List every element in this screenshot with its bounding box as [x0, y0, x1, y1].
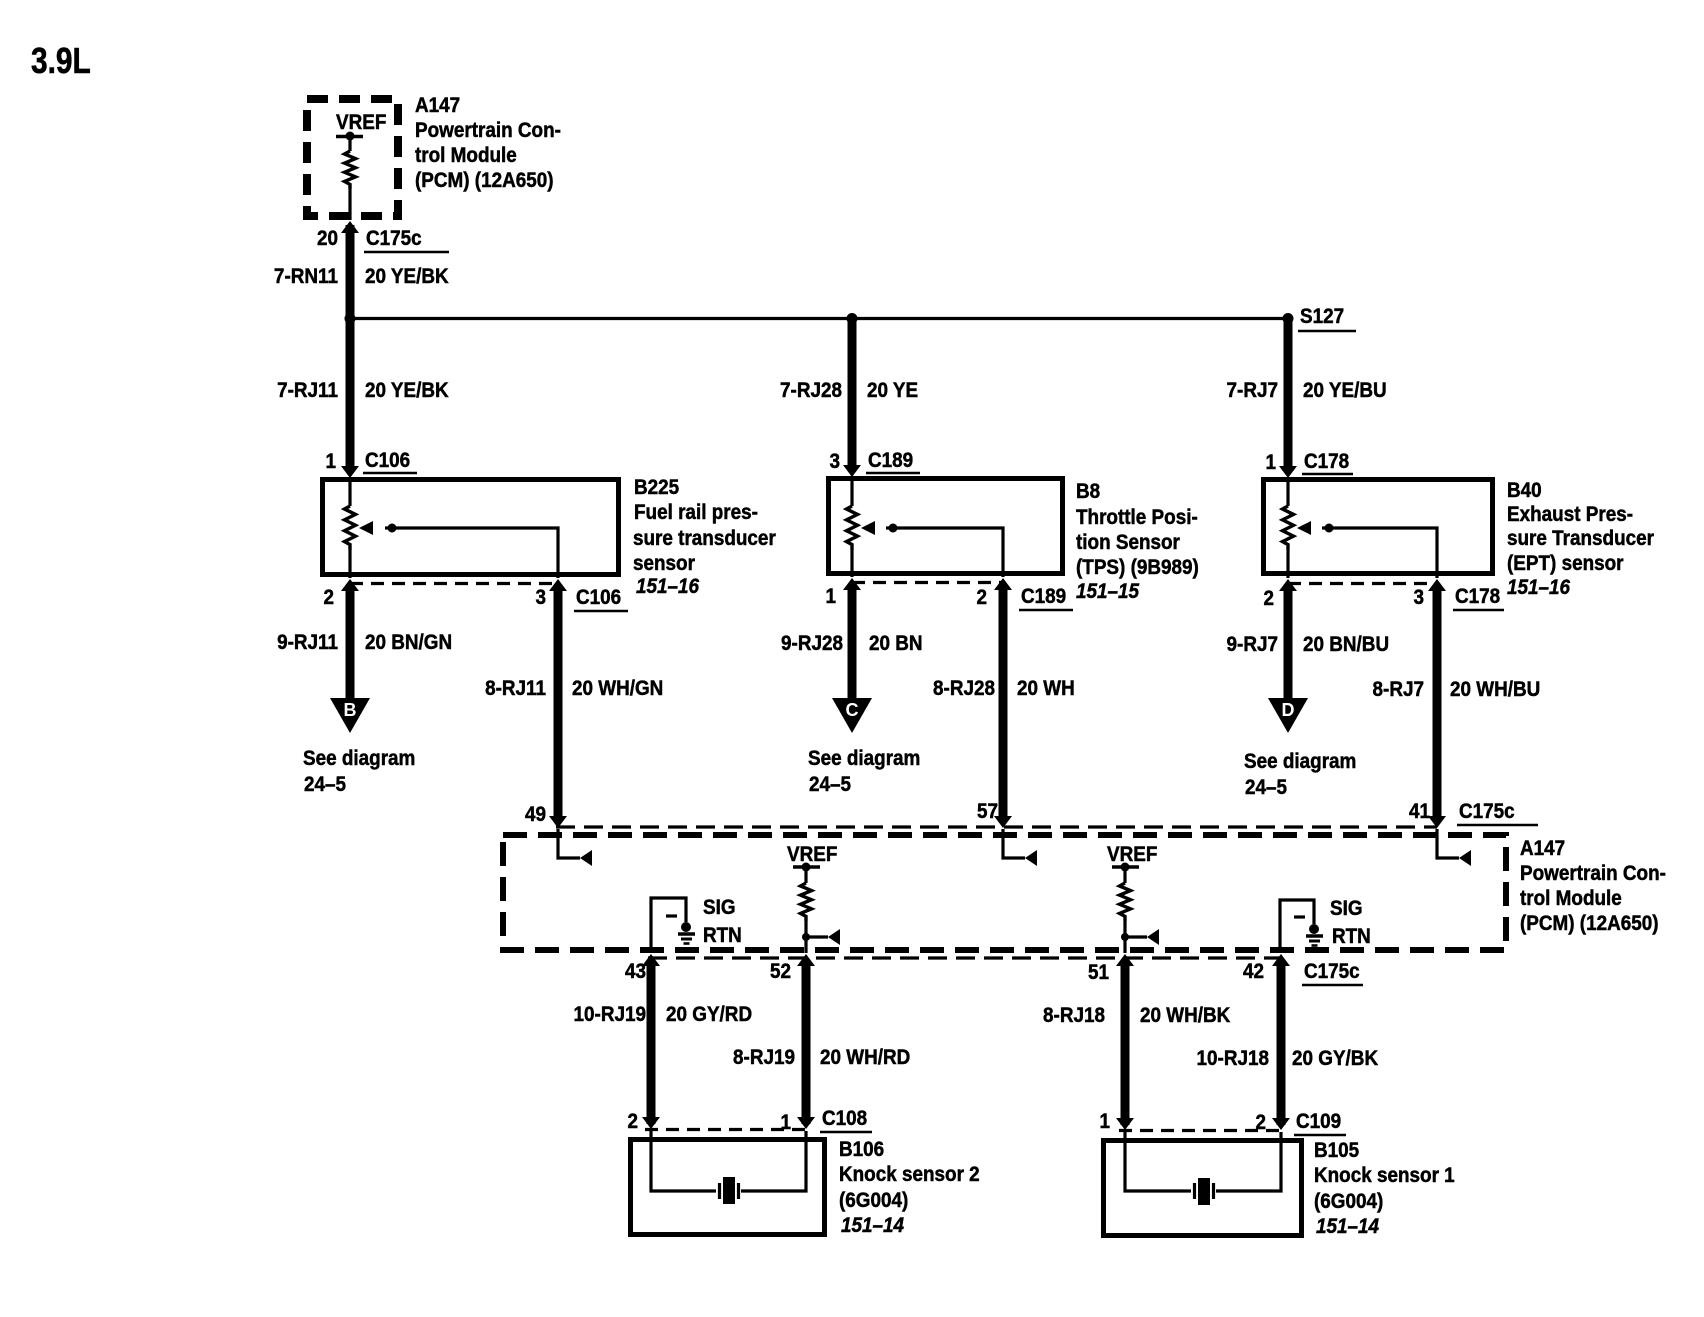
wire resistor to pin 20 — [348, 189, 351, 220]
svg-text:7-RJ28: 7-RJ28 — [780, 379, 842, 402]
pin 2 arrow out of C189 — [994, 578, 1012, 590]
pin 52 arrow out of C175c — [797, 954, 815, 966]
svg-text:24–5: 24–5 — [1245, 776, 1287, 799]
connector C175c label (PCM top) — [1457, 800, 1538, 825]
B8 wiper wire to pin 2 — [886, 528, 1003, 577]
pin 2 arrow into C108 — [642, 1117, 660, 1129]
svg-text:42: 42 — [1243, 960, 1264, 983]
svg-text:9-RJ7: 9-RJ7 — [1227, 633, 1278, 656]
svg-text:9-RJ28: 9-RJ28 — [781, 632, 843, 655]
svg-text:3: 3 — [829, 450, 840, 473]
svg-text:B: B — [344, 700, 357, 720]
pin 1 arrow into C109 — [1116, 1118, 1134, 1130]
svg-text:20 BN/GN: 20 BN/GN — [365, 631, 452, 654]
sensor B8 throttle position sensor box — [829, 479, 1063, 574]
svg-text:151–14: 151–14 — [841, 1214, 904, 1237]
wire 9-RJ11 20 BN/GN — [346, 587, 355, 698]
label 10-RJ18 — [1197, 1047, 1269, 1070]
wire 8-RJ18 20 WH/BK — [1121, 960, 1130, 1125]
svg-text:24–5: 24–5 — [304, 773, 346, 796]
svg-text:10-RJ19: 10-RJ19 — [574, 1003, 646, 1026]
wire 8-RJ7 20 WH/BU — [1433, 587, 1442, 820]
label A147 PCM (top) — [415, 94, 561, 192]
pin number 2 (C189) — [976, 586, 987, 609]
PCM internal stub pin 49 — [558, 829, 580, 858]
sensor B106 knock sensor 2 box — [631, 1140, 825, 1235]
svg-text:2: 2 — [1263, 587, 1274, 610]
svg-text:151–16: 151–16 — [636, 575, 700, 598]
svg-text:3: 3 — [1413, 586, 1424, 609]
connector C175c label (top) — [364, 227, 449, 252]
svg-text:151–14: 151–14 — [1316, 1215, 1379, 1238]
connector C109 label — [1294, 1110, 1346, 1135]
pin 2 arrow out of C178 — [1279, 579, 1297, 591]
svg-text:RTN: RTN — [703, 924, 742, 947]
label B8 text block — [1076, 480, 1199, 603]
svg-text:(6G004): (6G004) — [1314, 1190, 1383, 1213]
svg-text:2: 2 — [976, 586, 987, 609]
PCM internal arrow pin 49 — [580, 850, 592, 866]
pin 3 arrow out of C178 — [1428, 579, 1446, 591]
svg-text:Powertrain Con-: Powertrain Con- — [415, 119, 561, 142]
PCM internal arrow VREF right — [1147, 929, 1159, 945]
pin number 42 — [1243, 960, 1264, 983]
svg-text:SIG: SIG — [1330, 897, 1363, 920]
wire bus to splice S127 — [350, 317, 1288, 320]
svg-text:C189: C189 — [1021, 585, 1066, 608]
label S127 — [1298, 305, 1356, 331]
svg-text:D: D — [1282, 700, 1295, 720]
junction dot VREF right — [1121, 933, 1129, 941]
B225 wiper arrow — [359, 521, 373, 535]
label 20 YE/BK (RN11) — [365, 265, 449, 288]
svg-text:C106: C106 — [365, 449, 410, 472]
pin 42 arrow out of C175c — [1272, 954, 1290, 966]
off-page arrow C — [832, 698, 872, 733]
SIG RTN minus mark (left) — [666, 914, 677, 917]
svg-text:sure transducer: sure transducer — [633, 527, 776, 550]
B40 wiper junction dot — [1325, 524, 1334, 533]
pin number 2 (C106) — [323, 586, 334, 609]
B40 wiper wire to pin 3 — [1322, 528, 1437, 578]
svg-text:49: 49 — [525, 803, 546, 826]
svg-text:43: 43 — [625, 960, 646, 983]
B105 internal wire right — [1216, 1132, 1281, 1191]
PCM internal stub pin 41 — [1437, 829, 1459, 858]
svg-text:8-RJ19: 8-RJ19 — [733, 1046, 795, 1069]
B105 internal wire left — [1125, 1132, 1191, 1191]
off-page arrow D — [1268, 698, 1308, 733]
PCM internal stub VREF right — [1125, 935, 1147, 938]
svg-text:57: 57 — [977, 800, 998, 823]
B40 internal wire pin1 to resistor — [1286, 477, 1289, 506]
label 20 BN/BU — [1303, 633, 1389, 656]
svg-text:1: 1 — [780, 1111, 791, 1134]
pin 43 arrow out of C175c — [642, 954, 660, 966]
resistor VREF left inside PCM — [801, 883, 812, 921]
node VREF terminal bar (PCM right) — [1112, 863, 1139, 872]
connector C175c label (PCM bottom) — [1302, 960, 1363, 985]
svg-text:C175c: C175c — [1459, 800, 1515, 823]
svg-text:10-RJ18: 10-RJ18 — [1197, 1047, 1269, 1070]
pin number 57 — [977, 800, 998, 823]
svg-text:7-RJ11: 7-RJ11 — [277, 379, 338, 402]
svg-text:(TPS) (9B989): (TPS) (9B989) — [1076, 556, 1199, 579]
label 20 GY/BK — [1292, 1047, 1379, 1070]
label 20 BN/GN — [365, 631, 452, 654]
label 20 YE/BK (RJ11) — [365, 379, 449, 402]
connector C106 label (top) — [363, 449, 417, 473]
svg-text:20 GY/RD: 20 GY/RD — [666, 1003, 752, 1026]
note see diagram 24-5 (C) — [808, 747, 920, 796]
label 9-RJ7 — [1227, 633, 1278, 656]
wire 10-RJ18 20 GY/BK — [1277, 960, 1286, 1125]
svg-text:7-RN11: 7-RN11 — [274, 265, 338, 288]
resistor inside top PCM — [345, 151, 356, 189]
junction dot VREF left — [802, 933, 810, 941]
pin number 3 (C106) — [535, 586, 546, 609]
B105 piezo element — [1195, 1178, 1214, 1205]
connector C189 label (bottom) — [1019, 585, 1073, 610]
svg-text:trol Module: trol Module — [415, 144, 517, 167]
label 20 WH/BK — [1140, 1004, 1231, 1027]
label 20 WH — [1017, 677, 1075, 700]
B8 wiper arrow — [861, 521, 875, 535]
svg-text:SIG: SIG — [703, 896, 736, 919]
connector C189 label (top) — [866, 449, 920, 473]
B8 resistor to pin 1 wire — [850, 550, 853, 577]
SIG RTN hook wire (left) — [651, 898, 686, 952]
pin 41 arrow into C175c — [1428, 816, 1446, 828]
SIG RTN hook wire (right) — [1280, 900, 1314, 952]
pin number 51 — [1088, 961, 1109, 984]
svg-text:41: 41 — [1409, 800, 1430, 823]
junction dot middle branch — [847, 313, 858, 324]
wire resistor to pin 51 — [1123, 921, 1126, 953]
B106 internal wire right — [741, 1131, 806, 1191]
connector C175c dashed line (PCM top row) — [556, 825, 1437, 828]
B40 potentiometer resistor — [1283, 506, 1294, 550]
pin 1 arrow into C106 — [341, 466, 359, 478]
svg-text:B105: B105 — [1314, 1139, 1359, 1162]
svg-text:20 BN: 20 BN — [869, 632, 923, 655]
pin number 2 (C108) — [627, 1110, 638, 1133]
label 20 WH/GN — [572, 677, 663, 700]
wire 7-RJ28 20 YE (middle drop) — [848, 318, 857, 466]
pin number 1 (C178) — [1265, 451, 1276, 474]
svg-text:C175c: C175c — [1304, 960, 1360, 983]
PCM internal arrow VREF left — [828, 929, 840, 945]
wire VREF to resistor (PCM left) — [804, 869, 807, 883]
connector C106 label (bottom) — [574, 586, 628, 611]
svg-text:B106: B106 — [839, 1138, 884, 1161]
svg-text:sensor: sensor — [633, 552, 695, 575]
resistor VREF right inside PCM — [1120, 883, 1131, 921]
net VREF label (PCM left) — [787, 843, 837, 866]
svg-text:1: 1 — [1265, 451, 1276, 474]
label B40 text block — [1507, 479, 1654, 599]
wire resistor to pin 52 — [804, 921, 807, 953]
svg-text:Exhaust Pres-: Exhaust Pres- — [1507, 503, 1633, 526]
pin number 1 (C189) — [825, 585, 836, 608]
svg-text:20 YE/BU: 20 YE/BU — [1303, 379, 1387, 402]
svg-text:20 WH/GN: 20 WH/GN — [572, 677, 663, 700]
svg-text:20 WH/RD: 20 WH/RD — [820, 1046, 910, 1069]
net VREF label (PCM right) — [1107, 843, 1157, 866]
svg-text:C175c: C175c — [366, 227, 422, 250]
svg-text:sure Transducer: sure Transducer — [1507, 527, 1654, 550]
sensor B40 exhaust pressure transducer box — [1264, 480, 1493, 574]
splice S127 junction dot — [1283, 313, 1294, 324]
svg-text:S127: S127 — [1300, 305, 1344, 328]
svg-text:24–5: 24–5 — [809, 773, 851, 796]
PCM internal arrow pin 57 — [1025, 850, 1037, 866]
svg-text:RTN: RTN — [1332, 925, 1371, 948]
B40 wiper arrow — [1297, 521, 1311, 535]
svg-text:3.9L: 3.9L — [31, 41, 91, 81]
label 9-RJ11 — [277, 631, 338, 654]
label A147 PCM (bottom) — [1520, 837, 1666, 935]
note see diagram 24-5 (B) — [303, 747, 415, 796]
B225 internal wire pin1 to resistor — [348, 477, 351, 506]
pin 3 arrow out of C106 — [549, 579, 567, 591]
label 7-RN11 — [274, 265, 338, 288]
connector C178 label (bottom) — [1453, 585, 1504, 610]
svg-text:7-RJ7: 7-RJ7 — [1227, 379, 1278, 402]
label 20 BN — [869, 632, 923, 655]
svg-text:1: 1 — [825, 585, 836, 608]
svg-text:(PCM) (12A650): (PCM) (12A650) — [415, 169, 554, 192]
connector C108 label — [820, 1107, 872, 1132]
pin 20 arrow into connector C175c — [341, 221, 359, 233]
B106 piezo element — [720, 1177, 739, 1204]
svg-text:A147: A147 — [1520, 837, 1565, 860]
title 3.9L — [31, 41, 91, 81]
svg-text:Throttle Posi-: Throttle Posi- — [1076, 506, 1198, 529]
svg-text:trol Module: trol Module — [1520, 887, 1622, 910]
svg-text:9-RJ11: 9-RJ11 — [277, 631, 338, 654]
label SIG (right) — [1330, 897, 1363, 920]
svg-text:2: 2 — [627, 1110, 638, 1133]
svg-text:(6G004): (6G004) — [839, 1189, 908, 1212]
svg-text:20 WH: 20 WH — [1017, 677, 1075, 700]
wire 7-RN11 20 YE/BK thick segment — [346, 225, 355, 466]
B40 resistor to pin 2 wire — [1286, 550, 1289, 578]
svg-text:VREF: VREF — [787, 843, 837, 866]
pin number 20 — [317, 227, 338, 250]
svg-text:See diagram: See diagram — [303, 747, 415, 770]
svg-text:8-RJ7: 8-RJ7 — [1373, 678, 1424, 701]
pin number 2 (C178) — [1263, 587, 1274, 610]
B225 resistor to pin 2 wire — [348, 550, 351, 578]
label RTN (left) — [703, 924, 742, 947]
svg-text:See diagram: See diagram — [808, 747, 920, 770]
label 8-RJ7 — [1373, 678, 1424, 701]
svg-text:3: 3 — [535, 586, 546, 609]
svg-text:Powertrain Con-: Powertrain Con- — [1520, 862, 1666, 885]
module A147 PCM (bottom) dashed box — [503, 835, 1506, 950]
svg-text:C: C — [846, 700, 859, 720]
label 20 YE/BU — [1303, 379, 1387, 402]
pin number 43 — [625, 960, 646, 983]
svg-text:Knock sensor 2: Knock sensor 2 — [839, 1163, 980, 1186]
wire 8-RJ28 20 WH — [999, 586, 1008, 820]
svg-text:C109: C109 — [1296, 1110, 1341, 1133]
B106 internal wire left — [651, 1131, 716, 1191]
svg-text:8-RJ28: 8-RJ28 — [933, 677, 995, 700]
label 8-RJ28 — [933, 677, 995, 700]
connector C178 dashed line (bottom of B40) — [1288, 582, 1437, 585]
pin number 1 (C109) — [1099, 1110, 1110, 1133]
pin 1 arrow into C108 — [797, 1117, 815, 1129]
pin 2 arrow out of C106 — [341, 579, 359, 591]
label 7-RJ11 — [277, 379, 338, 402]
svg-text:52: 52 — [770, 960, 791, 983]
pin 1 arrow into C178 — [1279, 466, 1297, 478]
pin number 1 (C108) — [780, 1111, 791, 1134]
pin number 49 — [525, 803, 546, 826]
junction dot at splice below pin 20 — [345, 313, 356, 324]
sensor B225 fuel rail pressure transducer box — [323, 480, 619, 575]
wire 9-RJ28 20 BN — [848, 586, 857, 698]
wire VREF to resistor (PCM right) — [1123, 869, 1126, 883]
label 20 WH/BU — [1450, 678, 1540, 701]
B8 potentiometer resistor — [847, 506, 858, 550]
svg-text:B8: B8 — [1076, 480, 1100, 503]
pin 49 arrow into C175c — [549, 816, 567, 828]
svg-text:C106: C106 — [576, 586, 621, 609]
connector C109 dashed line — [1119, 1129, 1285, 1132]
svg-text:C108: C108 — [822, 1107, 867, 1130]
svg-text:2: 2 — [323, 586, 334, 609]
wire 9-RJ7 20 BN/BU — [1284, 587, 1293, 698]
pin 51 arrow out of C175c — [1116, 954, 1134, 966]
ground symbol SIG RTN (left) — [678, 922, 695, 944]
connector C175c dashed line (PCM bottom row) — [648, 956, 1285, 959]
connector C108 dashed line — [645, 1128, 810, 1131]
svg-text:8-RJ18: 8-RJ18 — [1043, 1004, 1105, 1027]
note see diagram 24-5 (D) — [1244, 750, 1356, 799]
svg-text:1: 1 — [325, 450, 336, 473]
wire VREF to resistor (top PCM) — [348, 138, 351, 151]
connector C189 dashed line (bottom of B8) — [852, 581, 1003, 584]
svg-text:B225: B225 — [634, 476, 679, 499]
wire 8-RJ11 20 WH/GN — [554, 587, 563, 820]
svg-text:8-RJ11: 8-RJ11 — [485, 677, 546, 700]
net VREF label (top PCM) — [336, 111, 386, 134]
label 9-RJ28 — [781, 632, 843, 655]
B225 wiper junction dot — [388, 524, 397, 533]
label B225 text block — [633, 476, 776, 598]
svg-text:(PCM) (12A650): (PCM) (12A650) — [1520, 912, 1659, 935]
B225 wiper wire to pin 3 — [385, 528, 558, 578]
label B106 text block — [839, 1138, 980, 1237]
label RTN (right) — [1332, 925, 1371, 948]
svg-text:(EPT) sensor: (EPT) sensor — [1507, 552, 1624, 575]
label 20 WH/RD — [820, 1046, 910, 1069]
connector C106 dashed line (bottom of B225) — [350, 582, 558, 585]
svg-text:151–16: 151–16 — [1507, 576, 1571, 599]
svg-text:20 BN/BU: 20 BN/BU — [1303, 633, 1389, 656]
label 20 YE — [867, 379, 918, 402]
pin number 3 (C189) — [829, 450, 840, 473]
node VREF terminal bar (PCM left) — [793, 863, 820, 872]
SIG RTN minus mark (right) — [1294, 915, 1305, 918]
label 8-RJ11 — [485, 677, 546, 700]
label 7-RJ7 — [1227, 379, 1278, 402]
label SIG (left) — [703, 896, 736, 919]
off-page arrow B — [330, 698, 370, 733]
svg-text:1: 1 — [1099, 1110, 1110, 1133]
svg-text:20: 20 — [317, 227, 338, 250]
svg-text:C178: C178 — [1455, 585, 1500, 608]
svg-text:51: 51 — [1088, 961, 1109, 984]
svg-text:C189: C189 — [868, 449, 913, 472]
wire 10-RJ19 20 GY/RD — [647, 960, 656, 1124]
pin 57 arrow into C175c — [994, 816, 1012, 828]
PCM internal stub pin 57 — [1003, 829, 1025, 858]
svg-text:20 YE/BK: 20 YE/BK — [365, 379, 449, 402]
svg-text:VREF: VREF — [1107, 843, 1157, 866]
svg-text:20 WH/BK: 20 WH/BK — [1140, 1004, 1231, 1027]
svg-text:151–15: 151–15 — [1076, 580, 1140, 603]
svg-text:2: 2 — [1255, 1111, 1266, 1134]
PCM internal arrow pin 41 — [1459, 850, 1471, 866]
svg-text:See diagram: See diagram — [1244, 750, 1356, 773]
svg-text:C178: C178 — [1304, 450, 1349, 473]
svg-text:20 GY/BK: 20 GY/BK — [1292, 1047, 1379, 1070]
PCM internal stub VREF left — [806, 935, 828, 938]
pin number 1 (C106) — [325, 450, 336, 473]
pin number 41 — [1409, 800, 1430, 823]
node VREF terminal bar (top PCM) — [336, 132, 363, 141]
ground symbol SIG RTN (right) — [1306, 924, 1323, 946]
B8 wiper junction dot — [889, 524, 898, 533]
pin number 2 (C109) — [1255, 1111, 1266, 1134]
pin 2 arrow into C109 — [1272, 1118, 1290, 1130]
label B105 text block — [1314, 1139, 1455, 1238]
svg-text:Knock sensor 1: Knock sensor 1 — [1314, 1164, 1455, 1187]
label 8-RJ19 — [733, 1046, 795, 1069]
wire 8-RJ19 20 WH/RD — [802, 960, 811, 1124]
svg-text:Fuel rail pres-: Fuel rail pres- — [634, 501, 758, 524]
B225 potentiometer resistor — [345, 506, 356, 550]
svg-text:A147: A147 — [415, 94, 460, 117]
pin 1 arrow out of C189 — [843, 578, 861, 590]
sensor B105 knock sensor 1 box — [1104, 1141, 1302, 1236]
svg-text:20 WH/BU: 20 WH/BU — [1450, 678, 1540, 701]
svg-text:20 YE: 20 YE — [867, 379, 918, 402]
pin number 3 (C178) — [1413, 586, 1424, 609]
pin number 52 — [770, 960, 791, 983]
svg-text:B40: B40 — [1507, 479, 1542, 502]
module A147 PCM (top) dashed box — [307, 99, 398, 216]
B8 internal wire pin3 to resistor — [850, 476, 853, 506]
pin 3 arrow into C189 — [843, 465, 861, 477]
svg-text:VREF: VREF — [336, 111, 386, 134]
label 7-RJ28 — [780, 379, 842, 402]
connector C178 label (top) — [1302, 450, 1353, 474]
label 8-RJ18 — [1043, 1004, 1105, 1027]
svg-text:20 YE/BK: 20 YE/BK — [365, 265, 449, 288]
wire 7-RJ7 20 YE/BU (right drop) — [1284, 318, 1293, 466]
label 20 GY/RD — [666, 1003, 752, 1026]
label 10-RJ19 — [574, 1003, 646, 1026]
svg-text:tion Sensor: tion Sensor — [1076, 531, 1180, 554]
